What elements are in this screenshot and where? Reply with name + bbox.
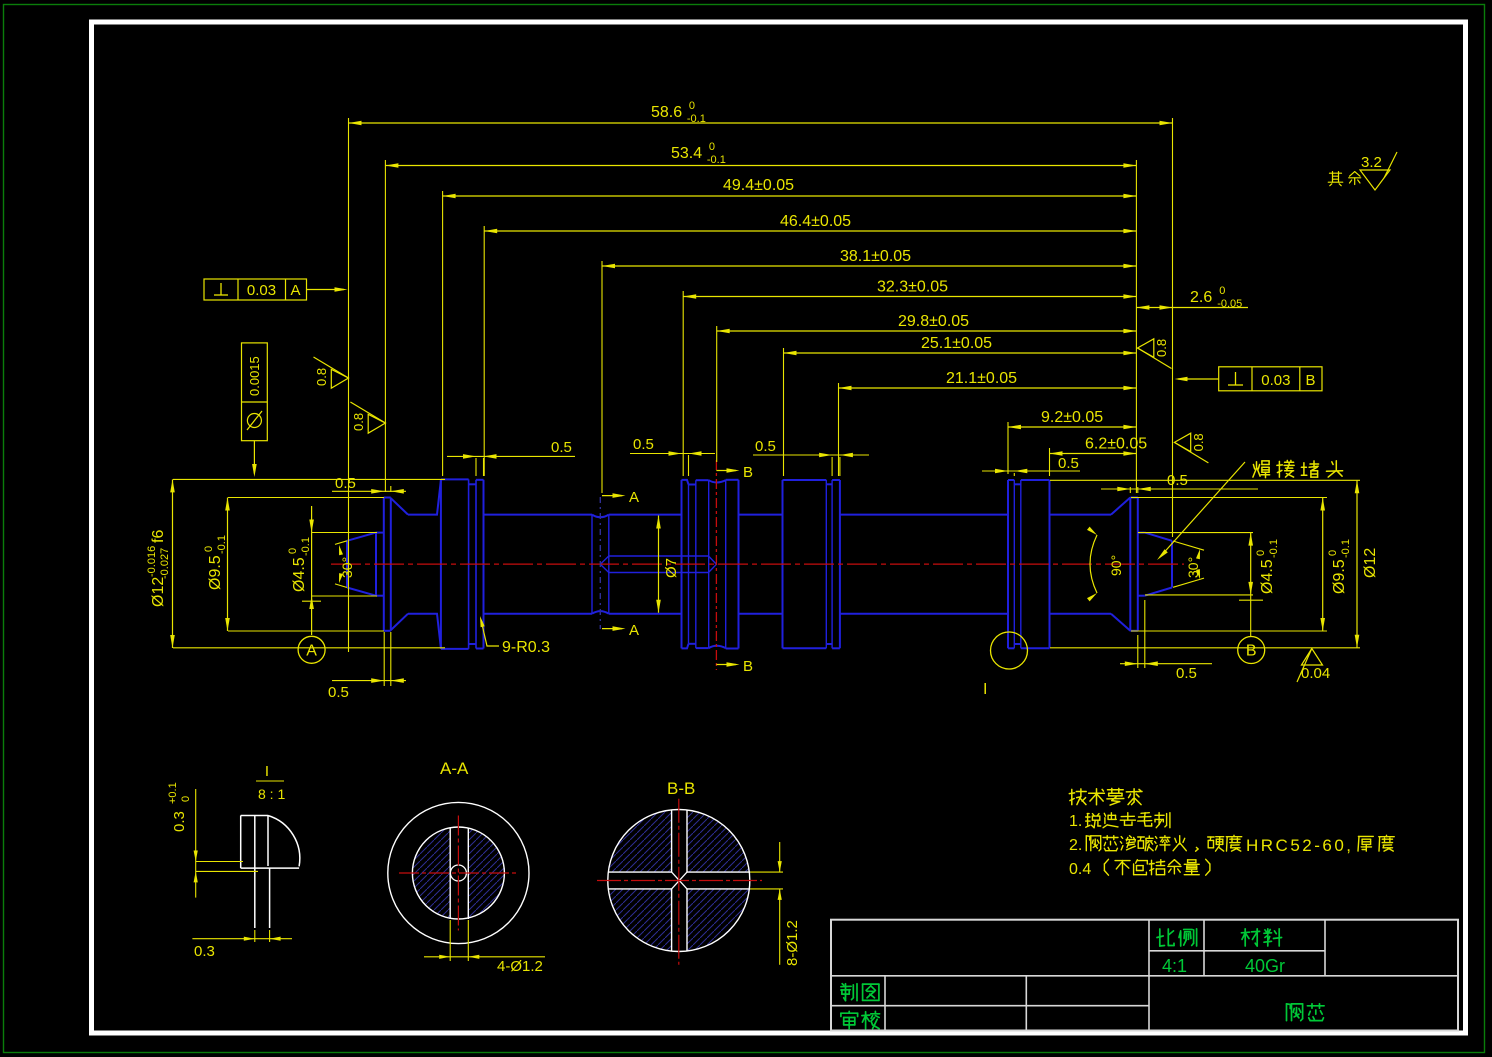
svg-text:0: 0 — [203, 546, 215, 552]
svg-text:0: 0 — [689, 100, 695, 112]
svg-text:0.04: 0.04 — [1301, 665, 1330, 682]
dimension 49.4 — [443, 195, 1137, 197]
svg-text:0: 0 — [287, 548, 299, 554]
dimension 0.5 (cluster B narrow land) — [630, 453, 715, 455]
svg-text:0.5: 0.5 — [755, 438, 776, 455]
svg-text:53.4: 53.4 — [671, 145, 702, 162]
svg-text:46.4±0.05: 46.4±0.05 — [780, 213, 851, 230]
title text scale label — [1157, 929, 1197, 946]
section arrow A top — [602, 495, 622, 497]
A-A hatched disc — [413, 828, 504, 919]
dimension 2.6 0/-0.05 — [1136, 307, 1172, 309]
svg-text:B-B: B-B — [667, 779, 695, 798]
B-B center chamfer X — [672, 872, 687, 889]
svg-text:-0.1: -0.1 — [1268, 539, 1280, 558]
A-A outer circle — [388, 802, 529, 943]
svg-text:4:1: 4:1 — [1162, 956, 1187, 976]
svg-text:0.5: 0.5 — [1058, 455, 1079, 472]
roughness 0.8 on 53.4 line — [368, 414, 385, 433]
dimension 21.1 — [839, 387, 1137, 389]
dimension dia9.5 (right) — [1322, 498, 1324, 632]
svg-text:0: 0 — [1327, 550, 1339, 556]
detail I part outline — [241, 815, 268, 817]
title block grid lines — [1148, 920, 1150, 1031]
svg-text:HRC52-60,: HRC52-60, — [1246, 836, 1354, 855]
dimension 53.4 0/-0.1 — [385, 165, 1136, 167]
B-B dim 8-dia1.2 — [750, 871, 783, 873]
svg-text:1.: 1. — [1069, 813, 1082, 830]
B-B cross slot walls — [671, 810, 673, 872]
title block outer box — [831, 920, 1458, 1031]
svg-text:40Gr: 40Gr — [1245, 956, 1285, 976]
datum circle B — [1238, 637, 1265, 664]
shaft vertical edges — [346, 541, 348, 588]
svg-text:0: 0 — [1219, 285, 1225, 297]
B-B centerlines — [597, 880, 762, 882]
svg-text:0.5: 0.5 — [551, 439, 572, 456]
svg-text:Ø7: Ø7 — [663, 558, 680, 578]
dimension 46.4 — [484, 230, 1136, 232]
svg-text:Ø4.5: Ø4.5 — [1259, 559, 1276, 594]
svg-text:-0.1: -0.1 — [687, 113, 706, 125]
dimension dia4.5 (left) — [311, 506, 313, 635]
svg-text:A-A: A-A — [440, 759, 469, 778]
svg-text:B: B — [1246, 643, 1257, 660]
section line A-A on shaft — [599, 497, 601, 629]
svg-text:-0.05: -0.05 — [1217, 298, 1242, 310]
svg-text:B: B — [743, 658, 753, 675]
dimension dia4.5 (right) — [1250, 533, 1252, 595]
section arrow A bottom — [602, 628, 622, 630]
svg-text:0.4: 0.4 — [1069, 861, 1091, 878]
A-A centerlines — [399, 872, 518, 874]
perpendicularity frame 0.03 A — [204, 279, 307, 300]
svg-text:I: I — [983, 681, 987, 698]
svg-text:38.1±0.05: 38.1±0.05 — [840, 248, 911, 265]
dimension 29.8 — [717, 330, 1137, 332]
svg-text:A: A — [629, 622, 639, 639]
svg-text:25.1±0.05: 25.1±0.05 — [921, 335, 992, 352]
roughness 0.8 right upper — [1138, 339, 1154, 358]
svg-text:Ø12: Ø12 — [1362, 548, 1379, 578]
svg-text:0.8: 0.8 — [1191, 433, 1206, 451]
dimension 25.1 — [784, 352, 1137, 354]
svg-text:0.03: 0.03 — [247, 282, 276, 299]
title text checked-by label — [841, 1011, 880, 1029]
svg-text:49.4±0.05: 49.4±0.05 — [723, 177, 794, 194]
svg-text:21.1±0.05: 21.1±0.05 — [946, 370, 1017, 387]
dimension dia12 (right) — [1356, 480, 1358, 648]
dimension 58.6 0/-0.1 — [349, 122, 1173, 124]
cylindricity frame 0.0015 — [242, 343, 268, 441]
section arrow B top — [716, 470, 736, 472]
leader welded plug label — [1253, 460, 1343, 477]
svg-text:0.3: 0.3 — [171, 811, 188, 832]
svg-text:-0.1: -0.1 — [216, 535, 228, 554]
dimension 38.1 — [602, 265, 1136, 267]
svg-text:9.2±0.05: 9.2±0.05 — [1041, 409, 1103, 426]
centerline — [331, 563, 1184, 565]
angle 90 deg arc — [1090, 535, 1097, 593]
dimension 0.5 (cluster 1b narrow land) — [753, 454, 869, 456]
svg-text:I: I — [265, 763, 269, 780]
svg-text:-0.016: -0.016 — [146, 546, 158, 577]
svg-text:Ø4.5: Ø4.5 — [291, 557, 308, 592]
svg-text:A: A — [290, 282, 300, 299]
dimension 0.5 (left land top) — [332, 490, 406, 492]
svg-text:8-Ø1.2: 8-Ø1.2 — [784, 920, 801, 966]
svg-text:0.5: 0.5 — [633, 436, 654, 453]
svg-text:A: A — [306, 643, 317, 660]
svg-text:2.: 2. — [1069, 837, 1082, 854]
svg-text:4-Ø1.2: 4-Ø1.2 — [497, 958, 543, 975]
svg-text:0: 0 — [180, 796, 192, 802]
svg-text:9-R0.3: 9-R0.3 — [502, 639, 550, 656]
svg-text:90°: 90° — [1108, 555, 1124, 576]
svg-text:0.3: 0.3 — [194, 943, 215, 960]
svg-text:0.03: 0.03 — [1261, 372, 1290, 389]
dimension 0.5 (cluster 2 narrow land) — [982, 470, 1080, 472]
dimension dia12 f6 (left) — [172, 479, 174, 648]
svg-text:6.2±0.05: 6.2±0.05 — [1085, 436, 1147, 453]
dimension 0.5 (left land bottom) — [332, 680, 406, 682]
A-A inner circle — [412, 827, 504, 919]
general roughness 3.2 (top right) — [1360, 170, 1390, 190]
flatness 0.04 flag — [1302, 649, 1323, 666]
svg-text:58.6: 58.6 — [651, 104, 682, 121]
svg-text:Ø12: Ø12 — [150, 577, 167, 607]
A-A center hole — [450, 865, 466, 881]
svg-text:32.3±0.05: 32.3±0.05 — [877, 279, 948, 296]
shaft outline bottom profile (mirror) — [347, 588, 376, 596]
svg-text:f6: f6 — [150, 530, 167, 543]
svg-text:29.8±0.05: 29.8±0.05 — [898, 313, 969, 330]
internal axial hole — [609, 555, 709, 557]
dimension 0.5 (right phi4.5 length) — [1120, 663, 1212, 665]
svg-text:2.6: 2.6 — [1190, 289, 1212, 306]
extension lines for chain dimensions — [348, 118, 350, 652]
svg-text:-0.1: -0.1 — [300, 537, 312, 556]
dimension 6.2 — [1050, 453, 1137, 455]
svg-text:-0.1: -0.1 — [1340, 539, 1352, 558]
svg-text:+0.1: +0.1 — [167, 782, 179, 804]
svg-text:0.8: 0.8 — [1154, 339, 1169, 357]
section line B-B on shaft — [715, 460, 717, 670]
perpendicularity frame 0.03 B — [1219, 367, 1322, 391]
dimension 0.5 (right phi9.5 land) — [1101, 488, 1258, 490]
svg-text:Ø9.5: Ø9.5 — [207, 555, 224, 590]
detail circle I — [991, 632, 1028, 669]
svg-text:-0.027: -0.027 — [159, 548, 171, 579]
dimension 32.3 — [683, 296, 1136, 298]
technical requirements text — [1069, 788, 1142, 805]
svg-text:0.0015: 0.0015 — [247, 356, 262, 396]
svg-text:0.8: 0.8 — [314, 368, 329, 386]
svg-text:-0.1: -0.1 — [707, 154, 726, 166]
svg-text:0.5: 0.5 — [328, 684, 349, 701]
title text drawn-by label — [841, 984, 879, 1001]
B-B hatched disc — [608, 810, 750, 952]
svg-text:0: 0 — [1255, 550, 1267, 556]
svg-text:Ø9.5: Ø9.5 — [1331, 559, 1348, 594]
datum circle A — [298, 636, 325, 663]
svg-text:8 : 1: 8 : 1 — [258, 786, 285, 802]
A-A cross hole walls — [449, 828, 451, 920]
roughness 0.8 on 58.6 line — [331, 369, 348, 388]
roughness 0.8 right lower — [1174, 433, 1190, 452]
shaft outline top profile — [347, 533, 376, 541]
title text part name valve spool — [1287, 1004, 1325, 1021]
title text material label — [1241, 929, 1281, 946]
dimension 0.5 (cluster A narrow land) — [447, 455, 575, 457]
dimension dia9.5 (left) — [227, 498, 229, 632]
svg-text:0: 0 — [709, 141, 715, 153]
section arrow B bottom — [716, 664, 736, 666]
svg-text:A: A — [629, 489, 639, 506]
detail I dim 0.3+0.1 — [167, 782, 192, 832]
svg-text:0.5: 0.5 — [1176, 665, 1197, 682]
dimension dia7 (middle) — [658, 516, 660, 613]
svg-text:0.5: 0.5 — [335, 475, 356, 492]
dimension 9.2 — [1008, 426, 1136, 428]
B-B outer circle — [608, 810, 750, 952]
svg-text:0.8: 0.8 — [351, 413, 366, 431]
svg-text:3.2: 3.2 — [1361, 154, 1382, 171]
svg-text:B: B — [1305, 372, 1315, 389]
svg-text:B: B — [743, 464, 753, 481]
